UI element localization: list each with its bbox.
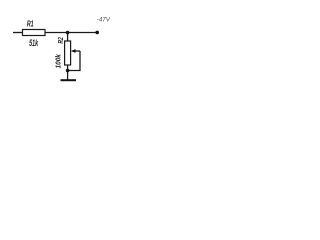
node dot -47V xyxy=(95,31,99,35)
svg-text:R2: R2 xyxy=(57,37,65,44)
junction dot bottom xyxy=(66,69,70,73)
svg-text:-47V: -47V xyxy=(97,16,111,23)
ground xyxy=(61,79,77,81)
wire: R2 bottom to ground xyxy=(67,65,69,80)
wire: left input stub to R1 xyxy=(13,32,23,34)
wiper arrow of R2 xyxy=(75,50,81,52)
svg-text:100k: 100k xyxy=(55,53,62,69)
svg-text:R1: R1 xyxy=(27,20,34,28)
wire: R1 to -47V node xyxy=(45,32,97,34)
resistor R1 xyxy=(23,30,46,36)
wire: junction down to R2 xyxy=(67,33,69,42)
wire: wiper loop down to bottom terminal xyxy=(68,51,80,71)
node junction dot (R1/R2) xyxy=(66,31,70,35)
svg-text:51k: 51k xyxy=(29,38,39,49)
potentiometer R2 body xyxy=(65,41,71,65)
